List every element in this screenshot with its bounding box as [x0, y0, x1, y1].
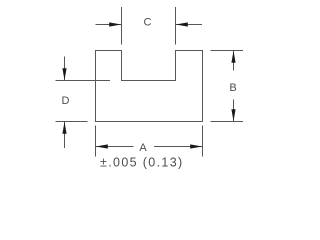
- svg-text:C: C: [144, 17, 152, 29]
- arrowhead B bottom (points down): [231, 109, 235, 121]
- arrowhead D top (points down): [62, 68, 66, 80]
- arrowhead C left (points right): [109, 22, 121, 26]
- dimension A line right segment: [154, 146, 202, 148]
- part outline (U-channel cross-section): [96, 51, 203, 122]
- dimension B extension line bottom: [211, 121, 244, 123]
- dimension B leader line bottom: [233, 100, 235, 122]
- arrowhead A left (points left): [96, 144, 108, 148]
- svg-text:±.005 (0.13): ±.005 (0.13): [100, 156, 184, 170]
- dimension C leader line left: [96, 24, 122, 26]
- dimension A extension line left: [95, 126, 97, 157]
- arrowhead A right (points right): [190, 144, 202, 148]
- arrowhead C right (points left): [176, 22, 188, 26]
- dimension D leader line bottom: [64, 122, 66, 148]
- dimension B leader line top: [233, 51, 235, 71]
- svg-text:B: B: [229, 82, 236, 94]
- svg-text:D: D: [62, 95, 70, 107]
- dimension C leader line right: [176, 24, 202, 26]
- arrowhead D bottom (points up): [62, 122, 66, 134]
- dimension C extension line right: [175, 7, 177, 45]
- dimension D extension line top: [56, 80, 111, 82]
- dimension C extension line left: [121, 7, 123, 45]
- dimension B extension line top: [211, 50, 244, 52]
- dimension D leader line top: [64, 57, 66, 81]
- dimension A line left segment: [96, 146, 134, 148]
- dimension A extension line right: [202, 126, 204, 157]
- dimension D extension line bottom: [56, 121, 88, 123]
- arrowhead B top (points up): [231, 51, 235, 63]
- svg-text:A: A: [139, 142, 147, 154]
